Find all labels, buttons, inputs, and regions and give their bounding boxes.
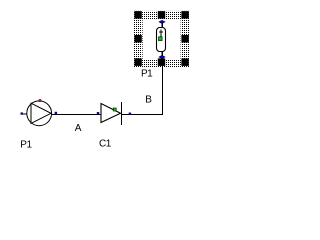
pump left terminal blue dot — [21, 113, 23, 115]
svg-text:B: B — [145, 95, 152, 106]
wire B horizontal segment — [122, 113, 163, 115]
component P1 bottom blue diamond — [159, 55, 165, 58]
selection handle bottom-middle — [158, 58, 165, 66]
pump P1 body — [27, 101, 52, 126]
pump red indicator dot — [39, 100, 41, 102]
component P1 body rounded rect — [157, 28, 166, 52]
component P1 inner crossbar — [159, 31, 163, 33]
pump right terminal blue dot — [55, 112, 57, 114]
svg-text:P1: P1 — [20, 140, 32, 151]
selection handle top-left — [134, 11, 141, 19]
wire A: pump to C1 — [52, 113, 101, 115]
C1 green state dot — [113, 108, 116, 111]
component P1 bottom connector line — [161, 52, 163, 57]
check valve C1 triangle — [101, 104, 121, 123]
component P1 green state dot — [159, 37, 163, 41]
selection handle left-middle — [134, 35, 141, 43]
component P1 top connector line — [161, 22, 163, 28]
pump left terminal stub wire — [22, 113, 28, 115]
wire B vertical segment — [161, 59, 163, 115]
C1 input blue dot — [97, 112, 99, 114]
check valve C1 bar — [121, 102, 123, 125]
svg-text:C1: C1 — [99, 139, 112, 150]
selection handle right-middle — [181, 35, 188, 43]
component P1 inner stem — [160, 30, 162, 38]
component P1 top blue diamond — [159, 20, 165, 23]
C1 output blue dot — [129, 113, 131, 115]
svg-text:A: A — [75, 123, 82, 134]
selection handle bottom-right — [181, 58, 188, 66]
selection handle top-right — [181, 11, 188, 19]
selection handle top-middle — [158, 11, 165, 19]
svg-text:P1: P1 — [141, 68, 153, 79]
selection handle bottom-left — [134, 58, 141, 66]
selection hatched frame — [134, 11, 190, 68]
